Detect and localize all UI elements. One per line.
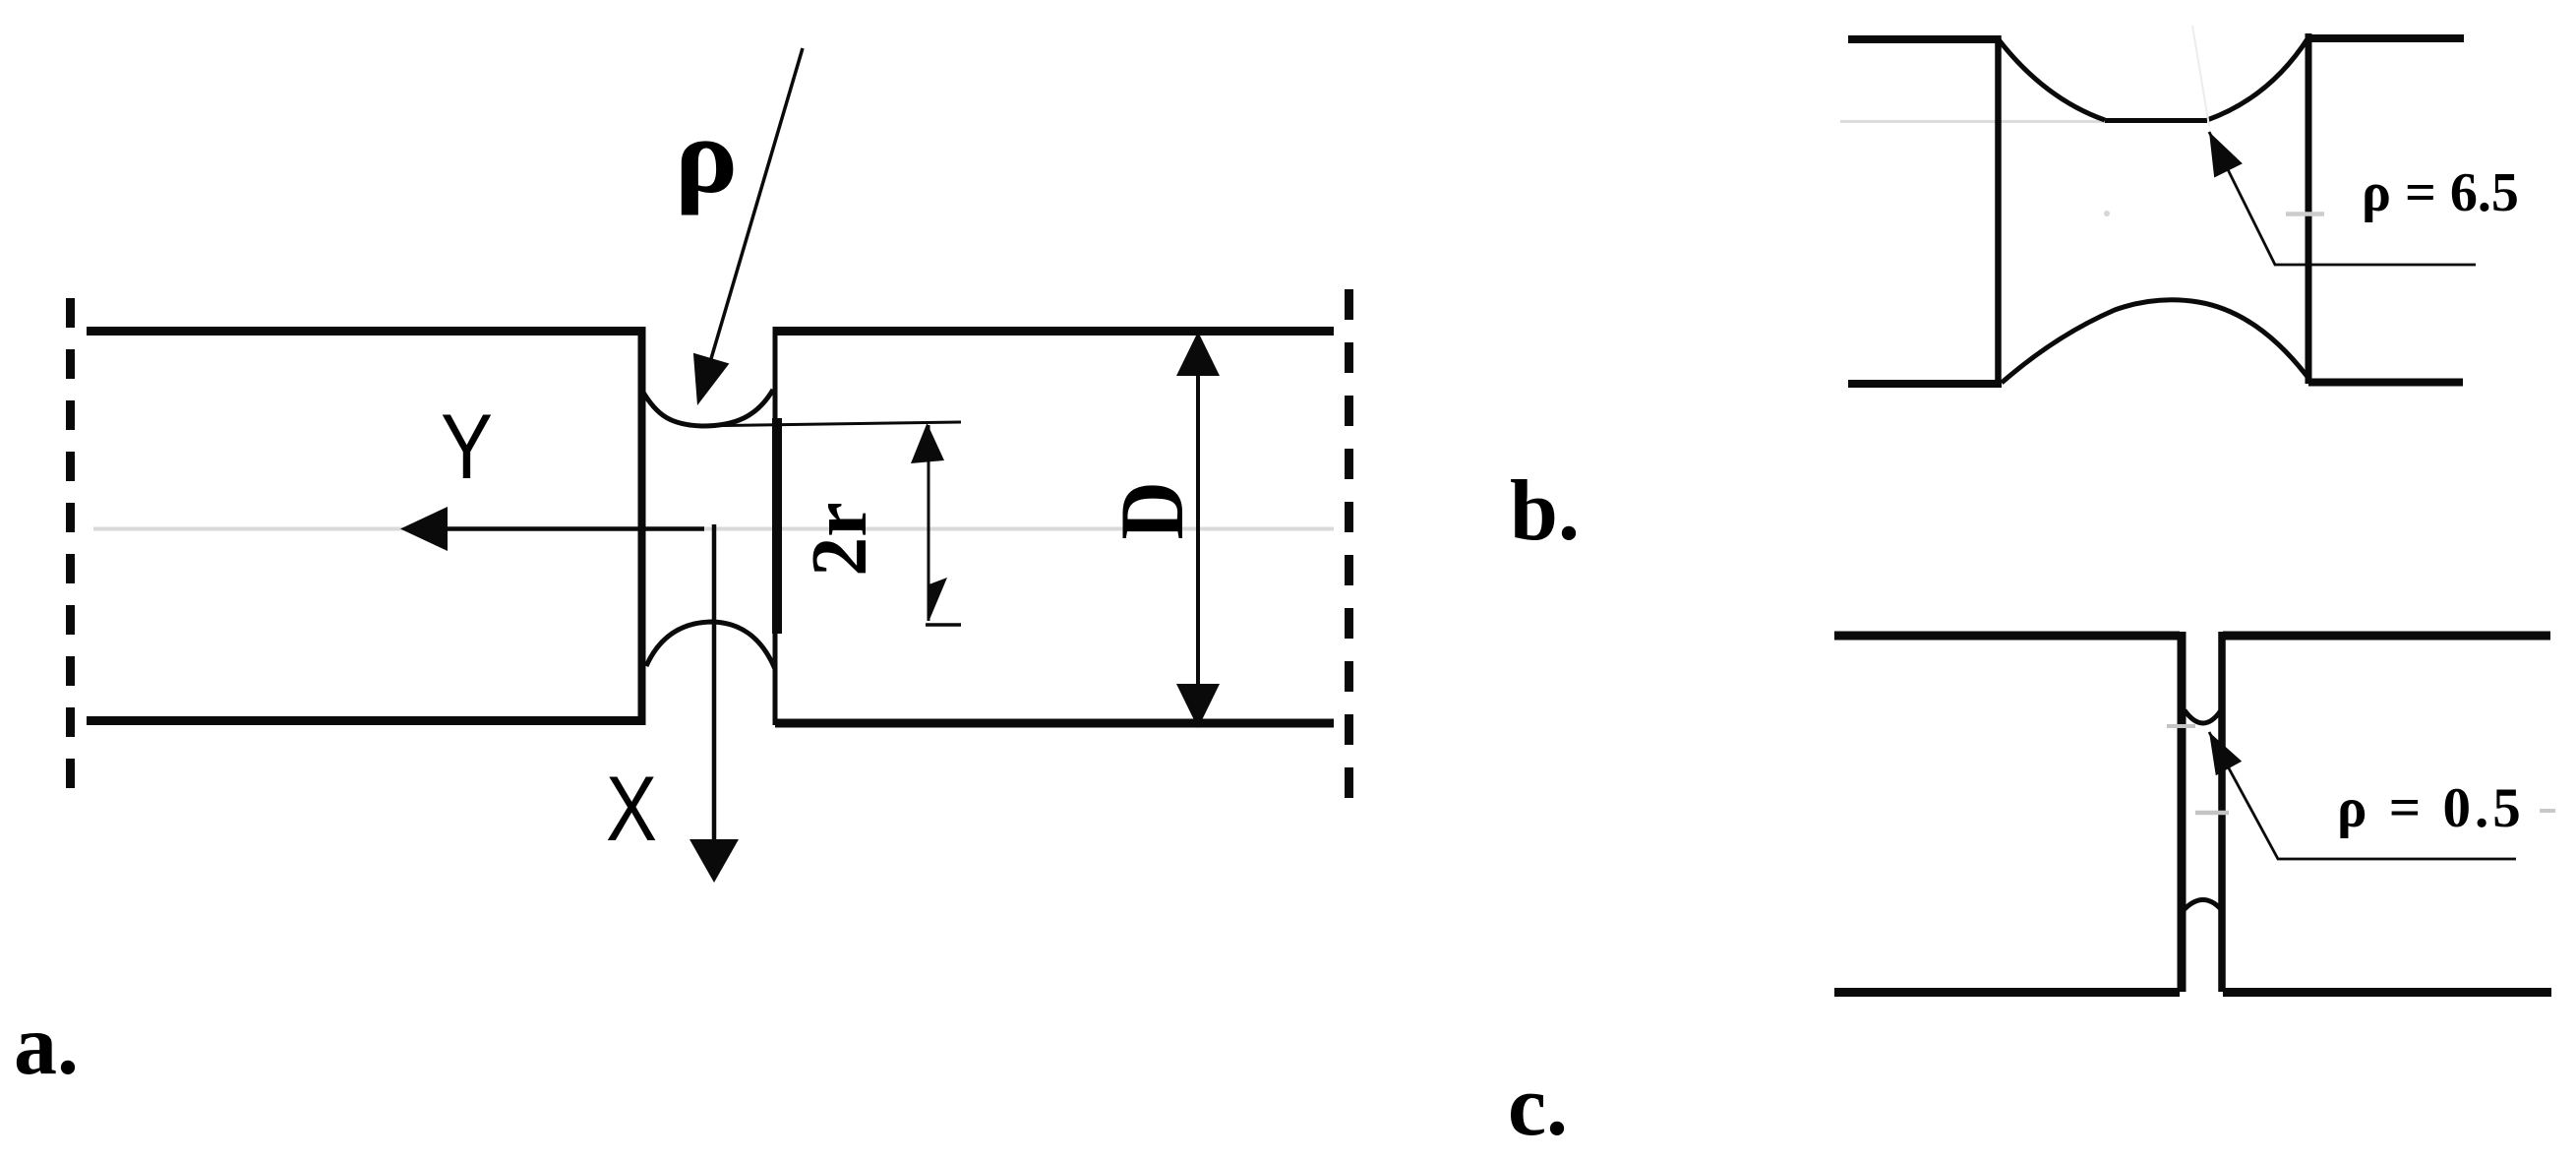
specimen a right body outline xyxy=(775,327,1334,725)
upper notch arc of specimen a xyxy=(642,390,773,426)
X axis arrow xyxy=(689,524,739,883)
specimen b upper neck curve right xyxy=(2207,37,2308,120)
svg-text:c.: c. xyxy=(1508,1059,1568,1154)
specimen a left body outline xyxy=(87,327,642,725)
Y axis arrow xyxy=(400,507,704,551)
2r dimension line with arrowheads and tick xyxy=(911,423,961,625)
specimen b left body outline xyxy=(1848,35,2002,384)
svg-text:D: D xyxy=(1102,481,1202,539)
specimen b right body outline xyxy=(2308,33,2464,384)
extension line from notch root xyxy=(689,422,961,426)
svg-text:2r: 2r xyxy=(797,502,883,577)
lower notch root arc of specimen c xyxy=(2185,900,2221,910)
gray centre dot on specimen b xyxy=(2104,211,2110,216)
svg-text:ρ = 0.5: ρ = 0.5 xyxy=(2337,777,2525,839)
right break dashed line of specimen a xyxy=(1345,289,1353,815)
gray mark left of upper root (c) xyxy=(2167,724,2195,728)
svg-text:ρ: ρ xyxy=(675,96,739,216)
specimen b upper neck curve left xyxy=(1998,38,2105,120)
gray centre tick on specimen b right edge xyxy=(2286,212,2324,216)
centerline of specimen a xyxy=(93,527,1334,531)
specimen c left body outline xyxy=(1834,632,2182,993)
rho leader arrow of specimen a xyxy=(693,48,803,405)
lower notch arc of specimen a xyxy=(646,622,775,669)
D dimension line with arrowheads xyxy=(1176,332,1220,728)
svg-text:a.: a. xyxy=(14,998,79,1093)
svg-text:b.: b. xyxy=(1510,463,1580,559)
left break dashed line of specimen a xyxy=(66,298,75,790)
centerline of specimen b neck xyxy=(1840,120,2105,123)
specimen b lower neck curve xyxy=(2002,300,2307,383)
svg-text:ρ = 6.5: ρ = 6.5 xyxy=(2362,162,2519,223)
specimen b neck flat xyxy=(2105,118,2207,123)
svg-text:Y: Y xyxy=(441,395,493,498)
svg-text:X: X xyxy=(606,757,657,860)
gray centre mark of specimen c xyxy=(2195,811,2229,816)
gray dash right of rho=0.5 text xyxy=(2540,809,2555,813)
thick minimum-section bar (2r plane) xyxy=(772,418,782,634)
leader arrow of rho=0.5 xyxy=(2209,732,2516,859)
faint leader extension above arrow (b) xyxy=(2192,26,2209,126)
leader arrow of rho=6.5 xyxy=(2209,132,2476,265)
specimen c right body outline xyxy=(2222,632,2551,993)
upper notch root arc of specimen c xyxy=(2185,710,2221,723)
